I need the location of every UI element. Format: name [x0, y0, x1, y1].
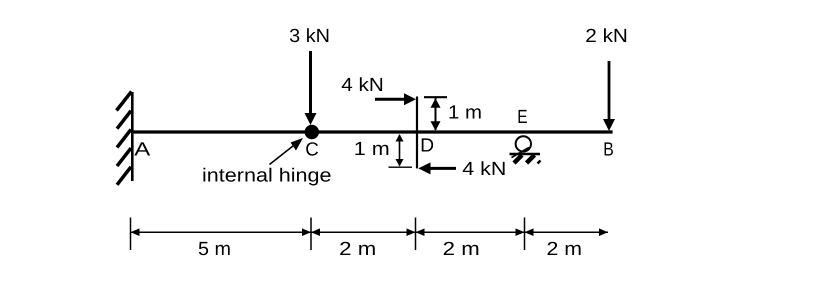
svg-text:1 m: 1 m [354, 139, 390, 160]
svg-text:internal hinge: internal hinge [202, 166, 332, 187]
dimension arrowhead left at C [311, 228, 320, 236]
svg-text:5 m: 5 m [198, 239, 231, 260]
svg-text:2 kN: 2 kN [585, 26, 628, 47]
dimension line bottom [131, 231, 609, 233]
force arrow 4 kN bottom (pointing left) [418, 162, 456, 174]
svg-text:2 m: 2 m [547, 239, 583, 260]
roller support circle at E [516, 136, 531, 151]
svg-text:2 m: 2 m [339, 239, 376, 260]
roller hatch stroke crossing circle at E [512, 148, 530, 158]
dimension arrowhead left at A [131, 228, 140, 236]
wall hatching at fixed support A [117, 92, 132, 185]
svg-text:1 m: 1 m [448, 103, 482, 124]
dimension tick top 1 m [424, 96, 447, 98]
svg-text:C: C [305, 140, 319, 161]
svg-text:A: A [134, 140, 150, 161]
svg-text:3 kN: 3 kN [289, 26, 330, 47]
dimension arrowhead right at D [407, 228, 416, 236]
svg-text:E: E [517, 107, 527, 128]
dimension tick below C [310, 218, 312, 251]
svg-text:4 kN: 4 kN [462, 159, 506, 180]
leader line for internal hinge [270, 138, 304, 165]
force arrow 3 kN at C [305, 51, 317, 125]
dimension tick bottom 1 m [389, 166, 413, 168]
vertical member at D [416, 97, 418, 169]
internal hinge circle at C [305, 125, 319, 139]
fixed support wall line at A [131, 92, 134, 181]
dimension tick below D [415, 218, 417, 251]
roller hatch corner mark at E [538, 161, 541, 164]
svg-text:4 kN: 4 kN [341, 75, 384, 96]
force arrow 4 kN top (pointing right) [375, 93, 416, 105]
force arrow 2 kN at B [603, 61, 615, 131]
dimension arrowhead left at E [525, 228, 534, 236]
dimension arrowhead right at B [599, 228, 608, 236]
roller ground bar at E [510, 153, 541, 156]
beam A-B [131, 130, 613, 133]
dimension double arrow top 1 m [431, 98, 441, 131]
svg-text:B: B [603, 140, 614, 161]
dimension arrowhead left at D [416, 228, 425, 236]
dimension tick below E [524, 218, 526, 251]
svg-text:D: D [420, 136, 434, 157]
svg-text:2 m: 2 m [443, 239, 480, 260]
dimension tick below A [130, 218, 132, 251]
dimension arrowhead right at E [516, 228, 525, 236]
dimension double arrow bottom 1 m [396, 134, 404, 167]
roller hatching at E [514, 155, 535, 163]
dimension arrowhead right at C [302, 228, 311, 236]
